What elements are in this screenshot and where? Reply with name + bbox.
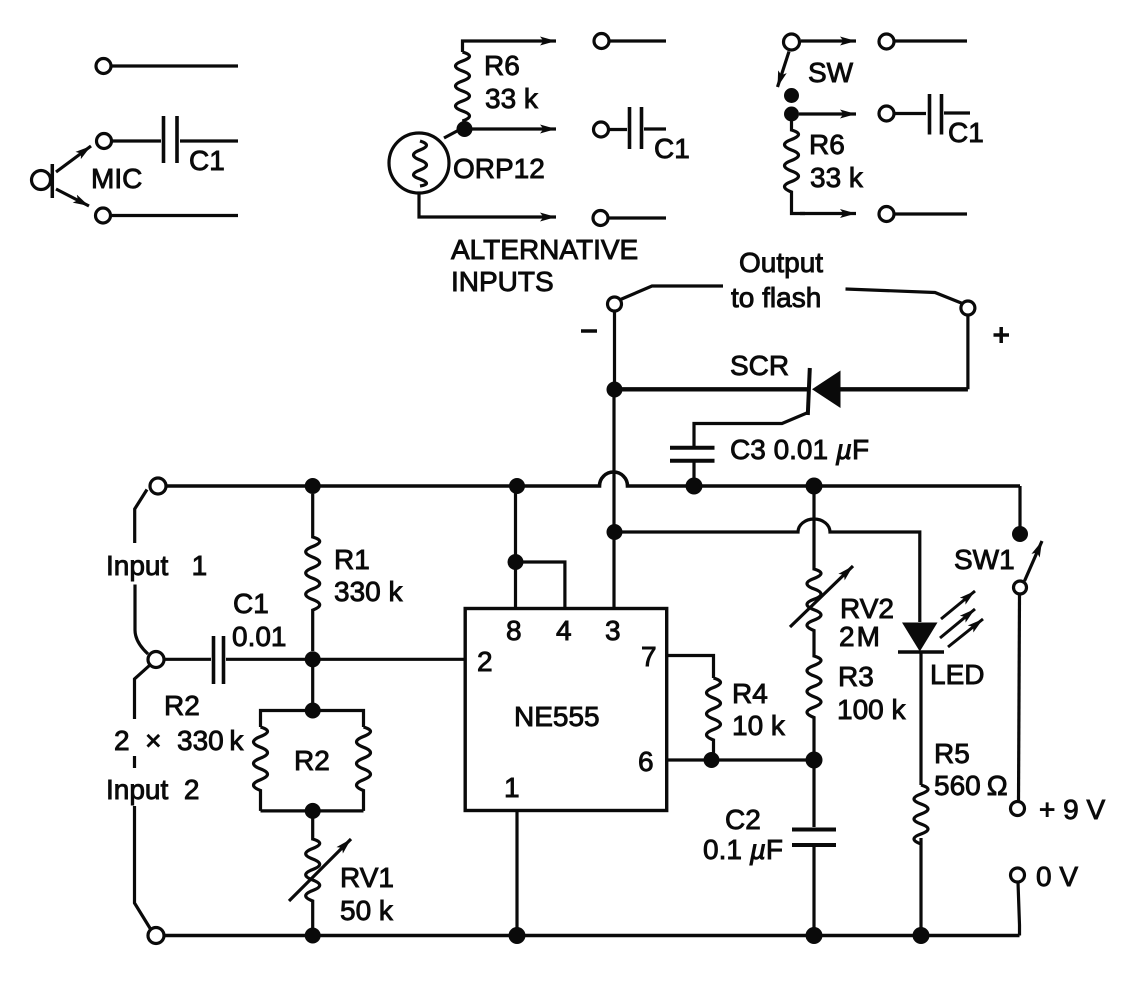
terminal top-left row1 [96,59,111,74]
wire mid row2 [609,128,627,131]
LED arrows [940,591,983,647]
resistor R1 [306,494,320,651]
node dot rail-R5 [913,927,930,944]
wire row2 to C1 [112,139,161,142]
top rail wire with hop [166,472,1020,486]
svg-text:0.01: 0.01 [232,621,287,652]
svg-text:LED: LED [930,659,984,690]
svg-text:INPUTS: INPUTS [451,266,554,297]
wire LED to R5 [919,652,922,785]
svg-text:ORP12: ORP12 [453,153,545,184]
input terminal 1 [150,478,166,494]
terminal top-left row3 [96,208,111,223]
node dot pin6/R3/C2 [806,752,823,769]
terminal 0V [1011,868,1025,882]
node dot rail-C3 [686,478,703,495]
svg-text:+ 9 V: + 9 V [1039,794,1105,825]
wire ORP12 bottom arrow [419,193,556,217]
terminal +9V [1011,802,1025,816]
MIC selector arrow upper [56,146,91,172]
RV2 arrow [790,566,853,627]
left rail lower segment c [135,806,151,929]
wire rail right corner down [1018,486,1021,534]
wire ORP12 to node [444,131,458,139]
wire ORP12 top arrow [463,41,557,52]
wire SW mid arrow [799,112,856,115]
SCR cathode bar [808,368,810,415]
svg-text:C1: C1 [654,133,690,164]
svg-text:7: 7 [641,641,657,672]
terminal top-left row2 [97,134,112,149]
wire pin4 link [516,562,565,609]
wire row1 [112,64,238,67]
wire minus terminal down [613,311,616,390]
wire input2 to C1 [164,658,211,661]
terminal mid row2 [594,122,609,137]
SCR triangle [812,371,841,409]
wire pin6 [667,758,814,761]
plus sign [994,327,1010,343]
wire C3 to rail [692,463,695,487]
svg-text:100 k: 100 k [837,694,906,725]
capacitor C3 [670,448,715,461]
wire C2 to rail [812,847,815,936]
switch SW arm [778,52,790,88]
resistor R2 right [357,727,371,811]
svg-text:SW1: SW1 [954,544,1015,575]
svg-text:R4: R4 [732,678,768,709]
svg-text:2: 2 [477,646,493,677]
SCR gate wire [694,413,808,447]
svg-text:50 k: 50 k [340,895,394,926]
wire pin7 to R4 [667,656,714,679]
svg-text:2 × 330 k: 2 × 330 k [114,725,244,756]
input terminal 2 (mid) [148,652,164,668]
bottom rail wire [164,934,1020,938]
left rail upper segment b [135,585,148,655]
svg-text:Input 2: Input 2 [106,774,199,805]
svg-text:R1: R1 [334,544,370,575]
potentiometer RV2 [807,494,821,634]
node dot pin8/pin4 [508,554,524,570]
switch SW1 contact [1014,581,1027,594]
wire C1 to pin2 [226,658,465,661]
wire right row2 [895,112,926,115]
photocell ORP12 [389,133,449,193]
wire row3 [112,214,238,217]
node dot pin2/R1 [305,651,321,667]
svg-text:R2: R2 [164,690,200,721]
node dot rail-RV2 [806,478,823,495]
svg-text:R6: R6 [484,50,520,81]
svg-text:RV2: RV2 [840,593,894,624]
svg-text:R3: R3 [838,661,874,692]
svg-text:1: 1 [504,772,520,803]
svg-text:C1: C1 [233,588,269,619]
microphone MIC symbol [32,164,53,198]
node dot rail-C2 [806,927,823,944]
MIC selector arrow lower [56,189,89,206]
wire right row3 [895,212,967,215]
capacitor C2 [792,830,836,846]
wire right row2 after cap [944,111,970,114]
resistor R6 (ORP12 branch) [456,52,470,121]
terminal right row1 [879,34,894,49]
svg-text:C3 0.01 µF: C3 0.01 µF [730,434,869,465]
node dot rail-R1 [305,478,321,494]
node dot rail-555 [509,478,525,494]
left rail lower segment [135,665,151,719]
svg-text:33 k: 33 k [810,162,864,193]
terminal right row2 [879,106,894,121]
output terminal minus [608,297,622,311]
wire row2 after C1 [180,139,238,142]
svg-text:to flash: to flash [731,282,821,313]
svg-text:0.1 µF: 0.1 µF [703,834,783,865]
svg-text:C2: C2 [725,804,761,835]
terminal mid row3 [593,211,608,226]
svg-text:3: 3 [605,615,621,646]
capacitor C1 (mid) [630,107,642,149]
svg-text:SCR: SCR [730,350,789,381]
wire SW1 to +9V [1019,594,1020,802]
node dot R2 bottom [305,803,321,819]
resistor R3 [807,634,821,760]
wire node to C2 [812,760,815,827]
svg-text:C1: C1 [189,145,225,176]
svg-text:4: 4 [556,615,572,646]
switch SW terminal [784,34,800,50]
svg-text:2M: 2M [839,621,882,652]
svg-text:R6: R6 [809,129,845,160]
svg-text:R2: R2 [294,745,330,776]
wire pin3 vertical [612,396,615,609]
wire mid row1 [610,39,666,42]
node dot rail-RV1 [305,928,321,944]
svg-text:560Ω: 560Ω [934,770,1008,801]
R2 top bus [261,711,364,728]
wire SW top arrow [801,39,856,42]
wire 0V to bottom rail [1018,882,1020,936]
node dot rail-pin1 [509,927,526,944]
R2 bottom bus [261,809,364,812]
node dot SW1 top [1012,526,1028,542]
terminal right row3 [879,207,894,222]
switch SW1 arm [1025,541,1043,581]
left rail upper segment [135,490,147,544]
svg-text:SW: SW [808,57,854,88]
node dot SW lower [784,107,799,122]
wire mid row3 [609,216,666,219]
node dot pin3 branch [607,524,623,540]
RV1 arrow [289,839,351,901]
svg-text:NE555: NE555 [514,701,600,732]
wire pin1 [515,811,518,936]
resistor R5 [914,785,928,936]
wire plus terminal down [966,315,969,389]
wire pin3 branch to LED (with hop) [615,519,920,622]
svg-text:ALTERNATIVE: ALTERNATIVE [451,234,638,265]
svg-text:R5: R5 [934,738,970,769]
wire middle arrow (ORP12) [471,127,556,130]
wire mid row2 after cap [644,127,666,130]
node dot SW pole [784,88,799,103]
potentiometer RV1 [306,811,320,936]
node dot R4 bottom [704,752,720,768]
svg-text:6: 6 [638,746,654,777]
wire pin2-node to R2 top [311,667,314,711]
svg-text:Output: Output [739,247,823,278]
output terminal plus [961,301,975,315]
wire SCR anode-side [615,387,809,391]
capacitor C1 (right) [930,94,942,135]
svg-text:0 V: 0 V [1036,861,1078,892]
svg-text:33 k: 33 k [485,83,539,114]
svg-text:RV1: RV1 [340,862,394,893]
left rail lower segment b [133,756,136,768]
input terminal bottom [148,928,164,944]
wire rail to pin8 [514,486,517,609]
terminal mid row1 [594,34,609,49]
resistor R6 (SW branch) [785,121,806,214]
LED symbol [898,623,944,653]
resistor R2 left [254,727,268,811]
minus sign [581,329,597,333]
svg-text:8: 8 [506,615,522,646]
node dot SCR-left [607,382,623,398]
wire output right [846,289,963,304]
IC NE555 body [465,609,667,811]
svg-text:330 k: 330 k [334,576,403,607]
resistor R4 [707,678,721,760]
wire output left [621,286,724,300]
wire SCR right [839,387,968,391]
capacitor C1 (input) [214,636,224,684]
svg-text:MIC: MIC [91,163,142,194]
svg-text:Input 1: Input 1 [106,550,207,581]
svg-text:10 k: 10 k [732,710,786,741]
node dot R2 top [305,703,321,719]
wire R6 bottom arrow [800,212,856,215]
wire right row1 [895,39,967,42]
capacitor C1 (mic) [164,116,178,163]
node junction (R6/ORP12) [457,121,473,137]
svg-text:C1: C1 [948,117,984,148]
